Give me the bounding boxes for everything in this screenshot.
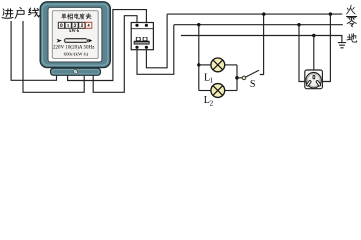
switch right contact stub: [260, 14, 264, 74]
node: socket live junction: [329, 12, 332, 15]
svg-text:1: 1: [210, 77, 214, 85]
label 零 (neutral): [346, 16, 356, 26]
socket right slot: [316, 80, 321, 86]
meter register digit 2: [72, 22, 78, 28]
meter register digit 4 (red decimal): [86, 22, 92, 28]
wire lamp branch riser: [198, 25, 200, 91]
breaker top terminal dots: [135, 24, 138, 27]
wire breaker left pole to neutral line: [137, 25, 174, 75]
label 地 (earth): [347, 34, 357, 42]
lamp L2: [211, 84, 225, 98]
label 火 (live): [347, 5, 355, 14]
meter terminal cover: [51, 68, 101, 75]
lamp L1: [211, 58, 225, 72]
meter label 单相电度表: [61, 14, 91, 20]
wire socket earth drop: [313, 36, 315, 76]
label 进户线 (incoming service line): [2, 7, 39, 18]
breaker divider line: [131, 28, 153, 30]
wire incoming line 2 to meter terminal 3: [23, 21, 84, 92]
wire lamp L1 to collector: [225, 64, 237, 66]
meter disc right arrow: [88, 39, 92, 43]
node: socket neutral junction: [297, 23, 300, 26]
meter disc slot: [64, 39, 87, 43]
wire lamp collector: [236, 65, 238, 91]
wire junction to switch pivot: [237, 77, 242, 79]
kWh meter M1 body: [40, 2, 110, 68]
socket XS body: [305, 70, 323, 89]
svg-text:600r/(kW·h): 600r/(kW·h): [64, 51, 89, 56]
wire lamp L2 to collector: [225, 90, 237, 92]
wire to lamp L1: [199, 64, 211, 66]
wire breaker right pole to live line: [146, 14, 167, 68]
meter register digit 0: [58, 22, 64, 28]
wire meter terminal 2 to breaker right pole: [68, 10, 147, 81]
earth line 地线: [181, 36, 342, 43]
wire socket live drop: [322, 14, 330, 81]
meter front panel: [52, 11, 98, 59]
wire incoming line 1 to meter terminal 1: [11, 21, 56, 80]
node: collector to switch junction: [235, 76, 239, 80]
socket earth slot: [313, 75, 315, 79]
socket face circle: [306, 73, 321, 88]
breaker toggle 2: [143, 38, 147, 41]
svg-text:220V 10(20)A 50Hz: 220V 10(20)A 50Hz: [53, 44, 95, 51]
meter register digit 1: [65, 22, 71, 28]
switch S blade (open): [246, 70, 259, 77]
breaker toggle 1: [136, 38, 140, 41]
terminal cover screw: [74, 70, 78, 74]
neutral line 零线: [174, 24, 343, 26]
node: lamp branch junction on neutral: [197, 23, 200, 26]
wire to lamp L2: [199, 90, 211, 92]
node: switch junction on live line: [262, 12, 265, 15]
node: socket earth junction: [312, 34, 315, 37]
switch S pivot: [242, 76, 246, 80]
breaker handle bar: [134, 41, 150, 45]
meter disc left arrow: [57, 39, 62, 43]
circuit breaker QF body: [131, 23, 153, 50]
ground symbol: [338, 43, 346, 48]
svg-text:kW·h: kW·h: [69, 28, 79, 33]
meter register digit 3: [79, 22, 85, 28]
svg-text:2: 2: [210, 99, 214, 107]
wire meter terminal 4 to breaker left pole: [93, 16, 137, 93]
breaker bottom terminal dots: [135, 46, 138, 49]
wire socket neutral drop: [299, 25, 305, 82]
meter inner face: [48, 7, 102, 62]
socket left slot: [306, 80, 311, 86]
live line 火线: [167, 13, 342, 15]
node: L1 branch junction: [197, 63, 200, 66]
svg-text:S: S: [250, 79, 256, 90]
